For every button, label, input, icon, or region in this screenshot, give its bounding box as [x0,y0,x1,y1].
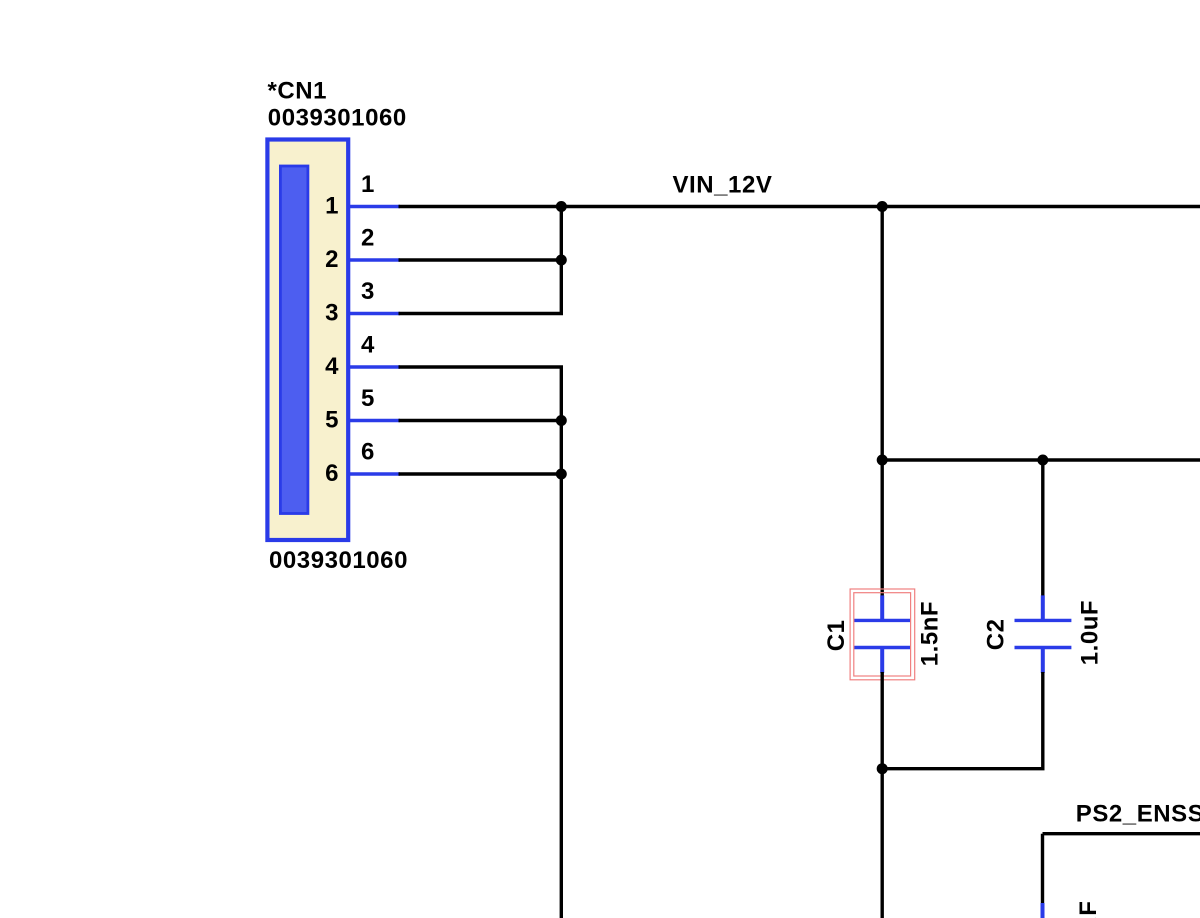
svg-text:3: 3 [325,300,339,327]
wire PS2 net vertical drop [1041,834,1044,903]
junction pin2 bus [556,255,567,266]
junction C2 column y=460 [1037,455,1048,466]
svg-text:C2: C2 [983,618,1010,650]
svg-text:2: 2 [325,246,339,273]
svg-text:3: 3 [361,278,375,305]
pin 4 stub [348,365,400,368]
svg-text:6: 6 [361,439,375,466]
svg-text:VIN_12V: VIN_12V [673,172,773,199]
wire pin1 to VIN_12V rail [399,205,1200,208]
svg-text:4: 4 [361,332,375,359]
pin 5 stub [348,419,400,422]
junction C1 column y=460 [877,455,888,466]
svg-text:C1: C1 [823,620,850,652]
wire pin2 horizontal [399,258,562,261]
wire C2 column drop [1041,460,1044,597]
wire horizontal branch at y=460 [882,458,1200,461]
svg-text:1.0uF: 1.0uF [1077,600,1104,665]
junction pin5 bus [556,415,567,426]
pin 3 stub [348,312,400,315]
wire horizontal C1-C2 bottom join [882,767,1044,770]
capacitor C2 [1015,595,1072,673]
junction VIN rail at C1 column [877,201,888,212]
wire vertical joining pins 1-3 [560,207,563,314]
wire pin6 horizontal [399,472,562,475]
capacitor C3 top stub (partially visible) [1041,903,1045,918]
svg-text:4: 4 [325,353,339,380]
svg-text:1.5nF: 1.5nF [917,601,944,666]
svg-text:1: 1 [361,171,375,198]
capacitor C1 [854,595,911,673]
svg-text:*CN1: *CN1 [268,78,328,105]
pin 1 stub [348,205,400,208]
C1 selection highlight box [850,589,915,680]
junction pin6 bus [556,469,567,480]
svg-text:0039301060: 0039301060 [269,547,408,574]
svg-text:5: 5 [325,407,339,434]
wire pin3 horizontal [399,312,564,315]
svg-text:PS2_ENSS_: PS2_ENSS_ [1076,801,1200,828]
pin 6 stub [348,472,400,475]
wire VIN drop to C1 [881,207,884,597]
junction pin1 bus [556,201,567,212]
svg-text:6: 6 [325,460,339,487]
connector CN1 body [267,140,348,541]
wire C1 bottom to ground rail [881,672,884,918]
junction C1 bottom [877,763,888,774]
svg-text:0039301060: 0039301060 [268,105,407,132]
svg-text:2: 2 [361,225,375,252]
svg-text:5: 5 [361,385,375,412]
wire pin4 horizontal [399,365,564,368]
svg-text:1.0uF: 1.0uF [1075,901,1102,918]
wire pin5 horizontal [399,419,562,422]
pin 2 stub [348,258,400,261]
svg-text:1: 1 [325,193,339,220]
wire PS2 net horizontal [1043,832,1200,835]
wire C2 bottom drop [1041,672,1044,769]
wire vertical joining pins 4-6 running off bottom [560,367,563,918]
